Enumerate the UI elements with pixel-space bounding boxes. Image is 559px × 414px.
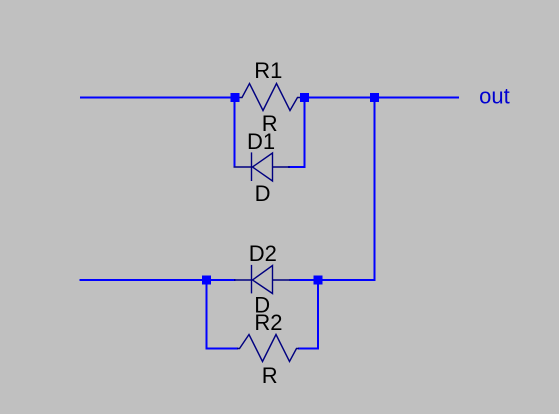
- wire bottom horizontal right: [290, 279, 375, 281]
- diode D2: [234, 265, 290, 294]
- wire left drop to R2: [207, 280, 239, 349]
- wire D1 right lead to vertical: [288, 166, 306, 168]
- wire top horizontal right: [305, 97, 460, 99]
- svg-text:D: D: [255, 181, 271, 206]
- wire bottom horizontal left: [80, 279, 236, 281]
- svg-text:R: R: [262, 363, 278, 388]
- node D junction square: [202, 276, 211, 285]
- svg-text:D1: D1: [247, 129, 275, 154]
- wire right drop to R2: [298, 280, 318, 349]
- svg-text:D2: D2: [249, 241, 277, 266]
- node B junction square: [300, 93, 309, 102]
- wire right vertical from node B down to D1: [304, 98, 306, 169]
- wire from node C down to second row: [318, 98, 375, 281]
- node E junction square: [314, 276, 323, 285]
- wire left vertical from node A down to D1: [234, 98, 236, 167]
- wire top horizontal left: [80, 97, 235, 99]
- svg-text:R1: R1: [254, 58, 282, 83]
- node A junction square: [231, 93, 240, 102]
- diode D1: [234, 152, 291, 181]
- svg-text:R2: R2: [254, 310, 282, 335]
- resistor R1: [240, 84, 301, 111]
- node C junction square: [370, 93, 379, 102]
- resistor R2: [237, 335, 299, 362]
- svg-text:out: out: [479, 84, 510, 109]
